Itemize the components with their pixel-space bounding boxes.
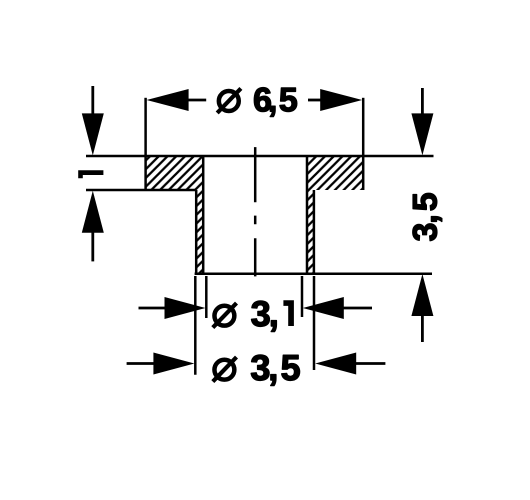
dim 3,5 rotated label: [413, 193, 442, 240]
dim 1 label rotated digit 1: [78, 170, 103, 178]
dia 6,5 diameter symbol: [219, 91, 239, 111]
dia 6,5 left arrow: [147, 89, 189, 111]
dia 3,1 digits: [252, 301, 277, 332]
centerline dash-dot: [254, 147, 257, 276]
dia 3,5 left arrow: [127, 362, 154, 365]
dia 3,5 diameter symbol: [214, 360, 234, 380]
hatched section flange+wall right: [307, 156, 363, 274]
dia 6,5 digits: [254, 88, 296, 117]
dim 3,5 down arrow: [411, 113, 433, 155]
tube left outer wall: [195, 190, 198, 274]
dim 3,5 shaft bottom: [421, 315, 424, 342]
dia 3,5 left ext line: [194, 276, 197, 375]
dia 6,5 right arrow: [320, 89, 362, 111]
flange right outer edge: [362, 156, 365, 190]
flange top surface line: [86, 155, 434, 158]
hatched section flange+wall left: [146, 156, 204, 274]
bore right edge: [306, 156, 309, 274]
dia 3,5 digits: [251, 355, 299, 386]
dim 3,5 shaft top: [421, 88, 424, 114]
dia 3,5 right ext line: [313, 276, 316, 370]
bore left edge: [202, 156, 205, 274]
dim 1 down arrow: [91, 86, 94, 115]
extension line left dia 6,5: [144, 98, 147, 156]
flange underside line: [86, 189, 196, 192]
dia 3,1 left arrow: [139, 307, 166, 310]
dia 3,1 left ext line: [205, 276, 208, 318]
tube bottom line: [195, 272, 432, 275]
dia 3,1 right arrow: [303, 297, 344, 319]
dia 3,1 diameter symbol: [214, 306, 234, 326]
dia 3,5 right arrow: [315, 353, 356, 375]
dia 3,1 digit one: [283, 300, 294, 326]
dim 1 up arrow: [82, 191, 104, 233]
dia 3,1 right ext line: [301, 276, 304, 317]
extension line right dia 6,5: [362, 98, 365, 156]
tube right outer wall: [313, 190, 316, 274]
dim 3,5 up arrow: [411, 274, 433, 316]
flange left outer edge: [144, 156, 147, 190]
